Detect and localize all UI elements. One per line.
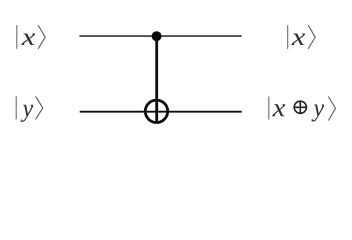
xor symbol cross in output ket <box>294 101 308 115</box>
label y of input |y> <box>21 105 34 122</box>
bottom qubit wire <box>80 111 242 113</box>
CNOT target circle <box>145 100 167 122</box>
ket bar of output |x xor y> <box>268 96 270 119</box>
ket bar of input |y> <box>15 96 17 119</box>
top qubit wire <box>79 35 241 37</box>
ket angle bracket of input |y> <box>36 96 43 119</box>
label x of output |x> <box>291 34 305 45</box>
ket angle bracket of input |x> <box>38 25 45 49</box>
label y of output ket <box>311 104 324 121</box>
label x of input |x> <box>21 34 35 45</box>
control dot <box>152 31 162 41</box>
label x of output ket <box>272 104 285 116</box>
ket bar of output |x> <box>287 25 289 49</box>
xor symbol circle in output ket <box>294 101 306 113</box>
vertical connector wire <box>155 36 158 123</box>
ket angle bracket of output ket <box>328 97 335 121</box>
ket angle bracket of output |x> <box>308 25 315 49</box>
ket bar of input |x> <box>16 25 18 49</box>
